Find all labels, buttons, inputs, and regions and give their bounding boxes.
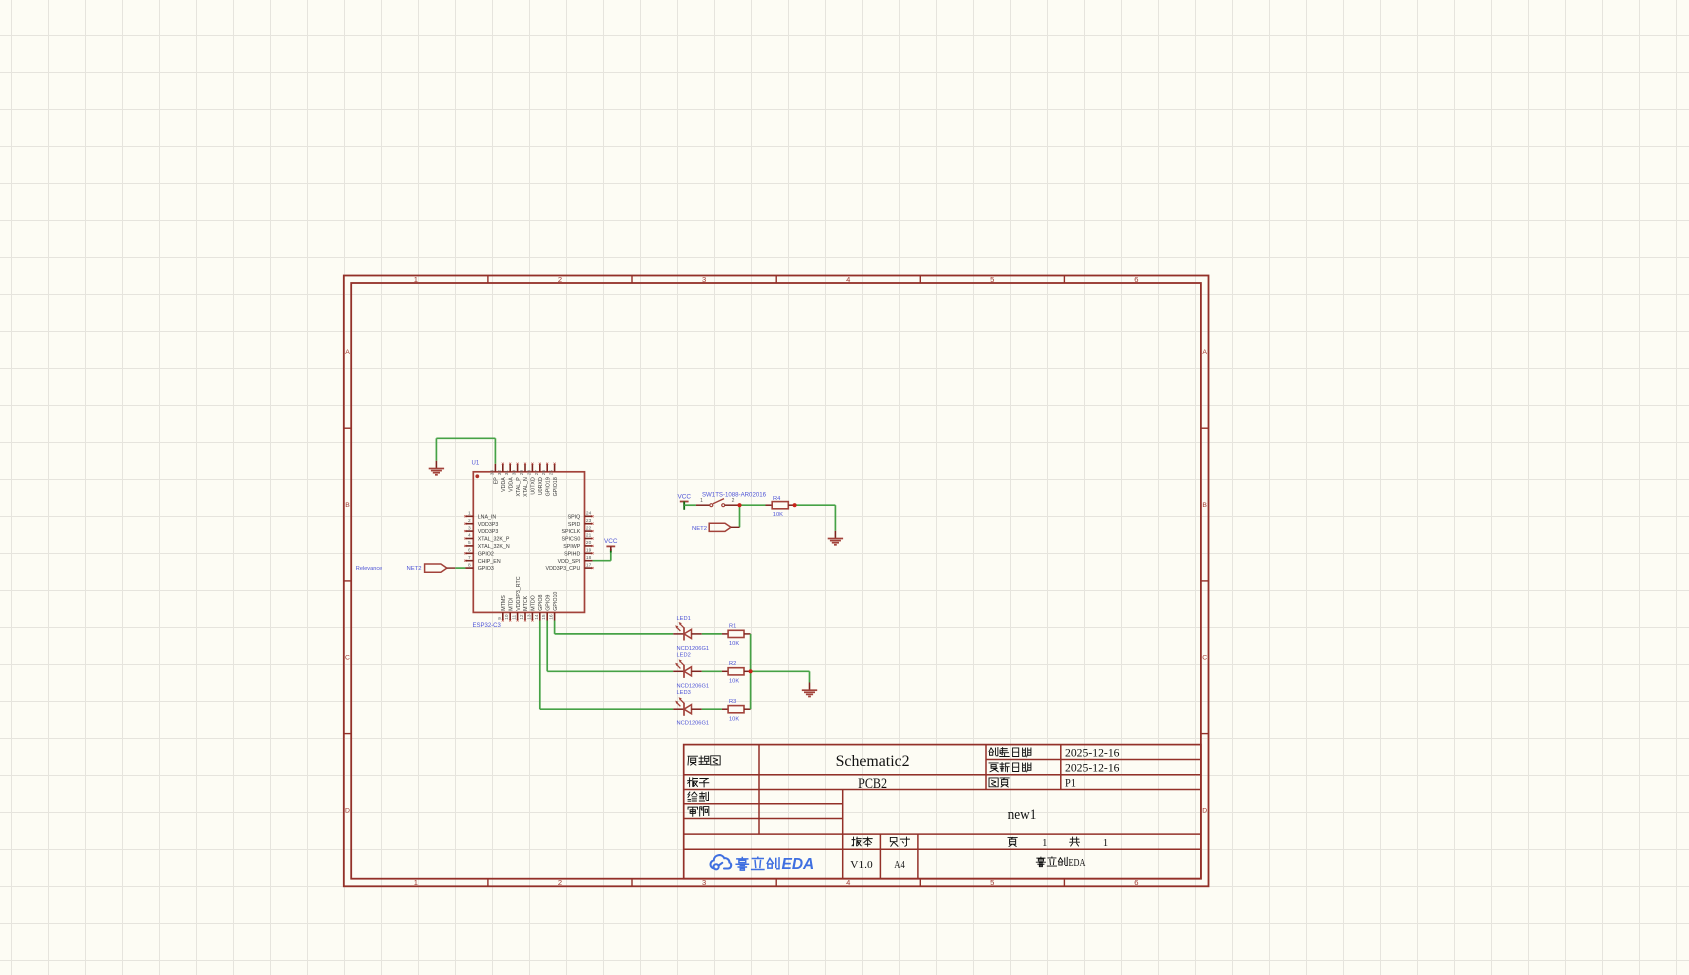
svg-text:2: 2 [558, 275, 562, 284]
svg-text:4: 4 [846, 275, 850, 284]
frame column ticks and numbers [414, 275, 1139, 887]
svg-text:GPIO19: GPIO19 [545, 477, 551, 496]
svg-text:7: 7 [468, 555, 471, 561]
svg-text:1: 1 [468, 511, 471, 517]
svg-text:2: 2 [468, 518, 471, 524]
U1 top pins 25-33 [489, 463, 558, 497]
resistor R4 [766, 502, 795, 509]
power flag VCC at U1 [604, 538, 618, 551]
svg-text:Schematic2: Schematic2 [836, 753, 910, 770]
svg-text:10K: 10K [729, 641, 739, 647]
power flag VCC at SW [677, 493, 691, 506]
svg-text:CHIP_EN: CHIP_EN [478, 559, 501, 565]
svg-text:GPIO18: GPIO18 [553, 477, 559, 496]
ground G2 [828, 531, 843, 545]
svg-text:5: 5 [990, 878, 994, 887]
wire VDD_SPI to VCC [593, 549, 611, 561]
svg-text:11: 11 [512, 614, 518, 619]
svg-text:LNA_IN: LNA_IN [478, 514, 497, 520]
U1 right pins 17-24 [546, 511, 594, 573]
svg-text:R4: R4 [773, 496, 780, 502]
svg-text:PCB2: PCB2 [858, 776, 887, 792]
svg-text:C: C [1202, 655, 1207, 662]
svg-text:XTAL_32K_P: XTAL_32K_P [478, 537, 510, 543]
svg-text:8: 8 [468, 562, 471, 568]
svg-text:22: 22 [586, 525, 592, 531]
svg-text:1: 1 [414, 878, 418, 887]
svg-text:21: 21 [586, 533, 592, 539]
svg-text:SPIHD: SPIHD [564, 551, 580, 557]
svg-text:R3: R3 [729, 699, 736, 705]
svg-text:LED1: LED1 [677, 616, 691, 622]
svg-text:NCD1206G1: NCD1206G1 [677, 646, 710, 652]
svg-text:3: 3 [702, 275, 706, 284]
svg-text:20: 20 [586, 540, 592, 546]
svg-text:GPIO3: GPIO3 [478, 566, 494, 572]
svg-text:Relevance: Relevance [356, 566, 382, 572]
svg-text:1: 1 [414, 275, 418, 284]
wire bus to GND [751, 671, 810, 682]
svg-text:GPIO10: GPIO10 [553, 592, 559, 611]
svg-text:29: 29 [519, 470, 525, 476]
ground G1 [429, 461, 444, 475]
svg-text:VDD3P3: VDD3P3 [478, 529, 499, 535]
svg-text:3: 3 [702, 878, 706, 887]
svg-text:6: 6 [1134, 878, 1138, 887]
svg-text:9: 9 [497, 617, 503, 620]
svg-text:EDA: EDA [1069, 858, 1086, 869]
svg-text:2: 2 [732, 498, 735, 504]
svg-text:31: 31 [504, 470, 510, 476]
svg-text:VDDA: VDDA [501, 477, 507, 492]
svg-text:SPICS0: SPICS0 [561, 537, 580, 543]
svg-text:A4: A4 [894, 860, 905, 871]
wire LED1 to R1 [702, 633, 722, 635]
svg-text:32: 32 [497, 470, 503, 476]
svg-text:SPIQ: SPIQ [568, 514, 581, 520]
svg-text:D: D [1202, 807, 1207, 814]
svg-text:GPIO2: GPIO2 [478, 551, 494, 557]
svg-text:MTCK: MTCK [523, 595, 529, 610]
svg-text:1: 1 [700, 498, 703, 504]
svg-text:SPID: SPID [568, 522, 581, 528]
svg-text:VDD3P3_RTC: VDD3P3_RTC [516, 576, 522, 611]
svg-text:6: 6 [1134, 275, 1138, 284]
svg-text:SPICLK: SPICLK [561, 529, 580, 535]
resistor R3 [722, 706, 751, 713]
svg-text:EP: EP [494, 477, 500, 485]
wire LED3 to R3 [702, 708, 722, 710]
svg-text:25: 25 [549, 470, 555, 476]
wires GPIO8/9/10 to LEDs [540, 621, 673, 710]
svg-text:A: A [1202, 349, 1207, 356]
svg-text:10K: 10K [773, 512, 783, 518]
svg-text:U0TXD: U0TXD [531, 477, 537, 495]
svg-text:V1.0: V1.0 [850, 860, 872, 871]
svg-text:10: 10 [504, 614, 510, 620]
U1 bottom pins 9-16 [497, 576, 559, 621]
resistor R1 [722, 630, 751, 637]
wire EP to GND [436, 438, 495, 463]
wire NET2 to GPIO3 [455, 567, 465, 569]
svg-text:U1: U1 [472, 460, 480, 466]
svg-text:XTAL_32K_N: XTAL_32K_N [478, 544, 510, 550]
svg-text:U0RXD: U0RXD [538, 477, 544, 495]
svg-text:3: 3 [468, 525, 471, 531]
LED1 NCD1206G1 [673, 622, 702, 641]
JLCEDA logo [710, 855, 814, 873]
svg-text:17: 17 [586, 562, 592, 568]
svg-text:30: 30 [512, 470, 518, 476]
svg-text:16: 16 [549, 614, 555, 620]
wire SW1 to R4 [740, 504, 766, 506]
svg-text:MTDI: MTDI [508, 598, 514, 611]
junction node at 751,671 [749, 669, 753, 673]
svg-text:26: 26 [541, 470, 547, 476]
junction node at 795,505 [793, 503, 797, 507]
svg-text:LED2: LED2 [677, 652, 691, 658]
svg-text:13: 13 [526, 614, 532, 620]
switch SW1 SW1TS-1088-AR02016 [696, 492, 767, 507]
svg-text:VDDA: VDDA [508, 477, 514, 492]
sheet inner border [351, 283, 1201, 879]
svg-text:2025-12-16: 2025-12-16 [1065, 762, 1120, 774]
svg-text:A: A [345, 349, 350, 356]
svg-text:SPIWP: SPIWP [563, 544, 581, 550]
net flag NET2 (left) [406, 564, 725, 572]
title block grid [684, 745, 1201, 879]
svg-text:2: 2 [558, 878, 562, 887]
svg-text:GPIO9: GPIO9 [545, 595, 551, 611]
wire SW1 pin2 to NET2 [739, 505, 741, 527]
svg-text:MTDO: MTDO [531, 595, 537, 611]
svg-text:5: 5 [468, 540, 471, 546]
svg-text:VCC: VCC [604, 538, 618, 545]
svg-text:XTAL_P: XTAL_P [516, 477, 522, 497]
svg-text:new1: new1 [1008, 807, 1037, 823]
svg-text:NET2: NET2 [406, 566, 421, 572]
svg-text:28: 28 [526, 470, 532, 476]
svg-text:B: B [1202, 502, 1207, 509]
svg-text:R2: R2 [729, 661, 736, 667]
svg-text:5: 5 [990, 275, 994, 284]
svg-text:NCD1206G1: NCD1206G1 [677, 721, 710, 727]
svg-text:33: 33 [489, 470, 495, 476]
svg-text:23: 23 [586, 518, 592, 524]
svg-text:C: C [345, 655, 350, 662]
svg-text:VDD3P3_CPU: VDD3P3_CPU [546, 566, 581, 572]
svg-text:12: 12 [519, 614, 525, 620]
ground G3 [802, 683, 817, 697]
svg-text:1: 1 [1103, 838, 1108, 849]
svg-text:10K: 10K [729, 716, 739, 722]
svg-text:4: 4 [846, 878, 850, 887]
title block labels [688, 748, 1080, 847]
svg-text:LED3: LED3 [677, 690, 691, 696]
svg-text:P1: P1 [1065, 777, 1076, 789]
net flag NET2 (right) [692, 523, 740, 532]
svg-text:D: D [345, 807, 350, 814]
svg-text:VDD3P3: VDD3P3 [478, 522, 499, 528]
svg-text:VCC: VCC [677, 493, 691, 500]
svg-text:24: 24 [586, 511, 592, 517]
svg-text:NET2: NET2 [692, 526, 707, 532]
svg-text:ESP32-C3: ESP32-C3 [473, 623, 502, 629]
svg-text:19: 19 [586, 548, 592, 554]
svg-text:4: 4 [468, 533, 471, 539]
wire resistor output bus [750, 634, 752, 709]
wire LED2 to R2 [702, 670, 722, 672]
svg-text:EDA: EDA [782, 856, 815, 873]
svg-text:XTAL_N: XTAL_N [523, 477, 529, 497]
wire VCC to SW1 pin1 [684, 502, 696, 510]
svg-text:27: 27 [534, 470, 540, 476]
wire R4 to GND [795, 505, 836, 531]
sheet outer border [344, 276, 1209, 887]
resistor R2 [722, 668, 751, 675]
LED3 NCD1206G1 [673, 697, 702, 716]
op-amp U1 ESP32-C3 body [473, 472, 584, 613]
U1 left pins 1-8 [464, 511, 510, 573]
frame row ticks and letters [344, 349, 1209, 814]
svg-text:6: 6 [468, 548, 471, 554]
svg-text:15: 15 [541, 614, 547, 620]
svg-text:18: 18 [586, 555, 592, 561]
svg-text:R1: R1 [729, 624, 736, 630]
svg-text:14: 14 [534, 614, 540, 620]
title block values [836, 747, 1120, 870]
svg-text:1: 1 [1042, 838, 1047, 849]
svg-text:GPIO8: GPIO8 [538, 595, 544, 611]
svg-text:10K: 10K [729, 679, 739, 685]
LED2 NCD1206G1 [673, 659, 702, 678]
svg-text:2025-12-16: 2025-12-16 [1065, 747, 1120, 759]
svg-text:B: B [345, 502, 350, 509]
junction node at 740,505 [737, 503, 741, 507]
svg-text:NCD1206G1: NCD1206G1 [677, 683, 710, 689]
svg-text:MTMS: MTMS [501, 595, 507, 611]
svg-text:VDD_SPI: VDD_SPI [558, 559, 581, 565]
